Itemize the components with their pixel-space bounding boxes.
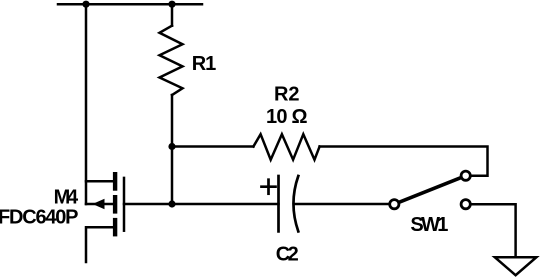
svg-text:R2: R2: [274, 83, 300, 105]
svg-text:R1: R1: [192, 53, 217, 75]
svg-text:M4: M4: [54, 186, 79, 208]
svg-text:FDC640P: FDC640P: [0, 207, 79, 229]
svg-text:SW1: SW1: [410, 214, 448, 236]
svg-text:C2: C2: [276, 243, 299, 265]
svg-text:10 Ω: 10 Ω: [266, 106, 308, 128]
